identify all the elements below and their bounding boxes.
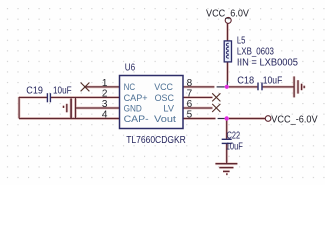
svg-text:C19: C19	[26, 86, 43, 97]
svg-text:10uF: 10uF	[263, 76, 283, 87]
svg-text:NC: NC	[124, 82, 136, 93]
svg-text:10uF: 10uF	[53, 86, 72, 97]
svg-text:CAP-: CAP-	[124, 114, 149, 125]
svg-text:VCC_-6.0V: VCC_-6.0V	[271, 115, 318, 126]
svg-text:5: 5	[187, 110, 193, 121]
svg-text:CAP+: CAP+	[124, 93, 148, 104]
svg-text:8: 8	[187, 78, 193, 89]
svg-text:4: 4	[102, 110, 108, 121]
svg-text:VCC: VCC	[154, 82, 173, 93]
svg-text:LV: LV	[163, 103, 174, 114]
svg-text:OSC: OSC	[155, 93, 174, 104]
svg-text:1: 1	[102, 78, 108, 89]
svg-text:Vout: Vout	[154, 114, 176, 125]
svg-text:GND: GND	[124, 103, 142, 114]
svg-text:TL7660CDGKR: TL7660CDGKR	[126, 135, 186, 146]
svg-text:U6: U6	[125, 63, 136, 74]
svg-text:L5: L5	[237, 35, 246, 46]
svg-text:LXB_0603: LXB_0603	[237, 47, 274, 58]
svg-text:10uF: 10uF	[226, 141, 243, 152]
svg-text:C18: C18	[237, 76, 254, 87]
svg-text:6: 6	[187, 99, 193, 110]
svg-text:3: 3	[102, 99, 108, 110]
svg-text:IIN = LXB0005: IIN = LXB0005	[237, 57, 298, 68]
svg-text:C22: C22	[227, 131, 241, 142]
svg-text:VCC_6.0V: VCC_6.0V	[206, 9, 249, 20]
svg-text:7: 7	[187, 88, 193, 99]
svg-text:2: 2	[102, 88, 108, 99]
